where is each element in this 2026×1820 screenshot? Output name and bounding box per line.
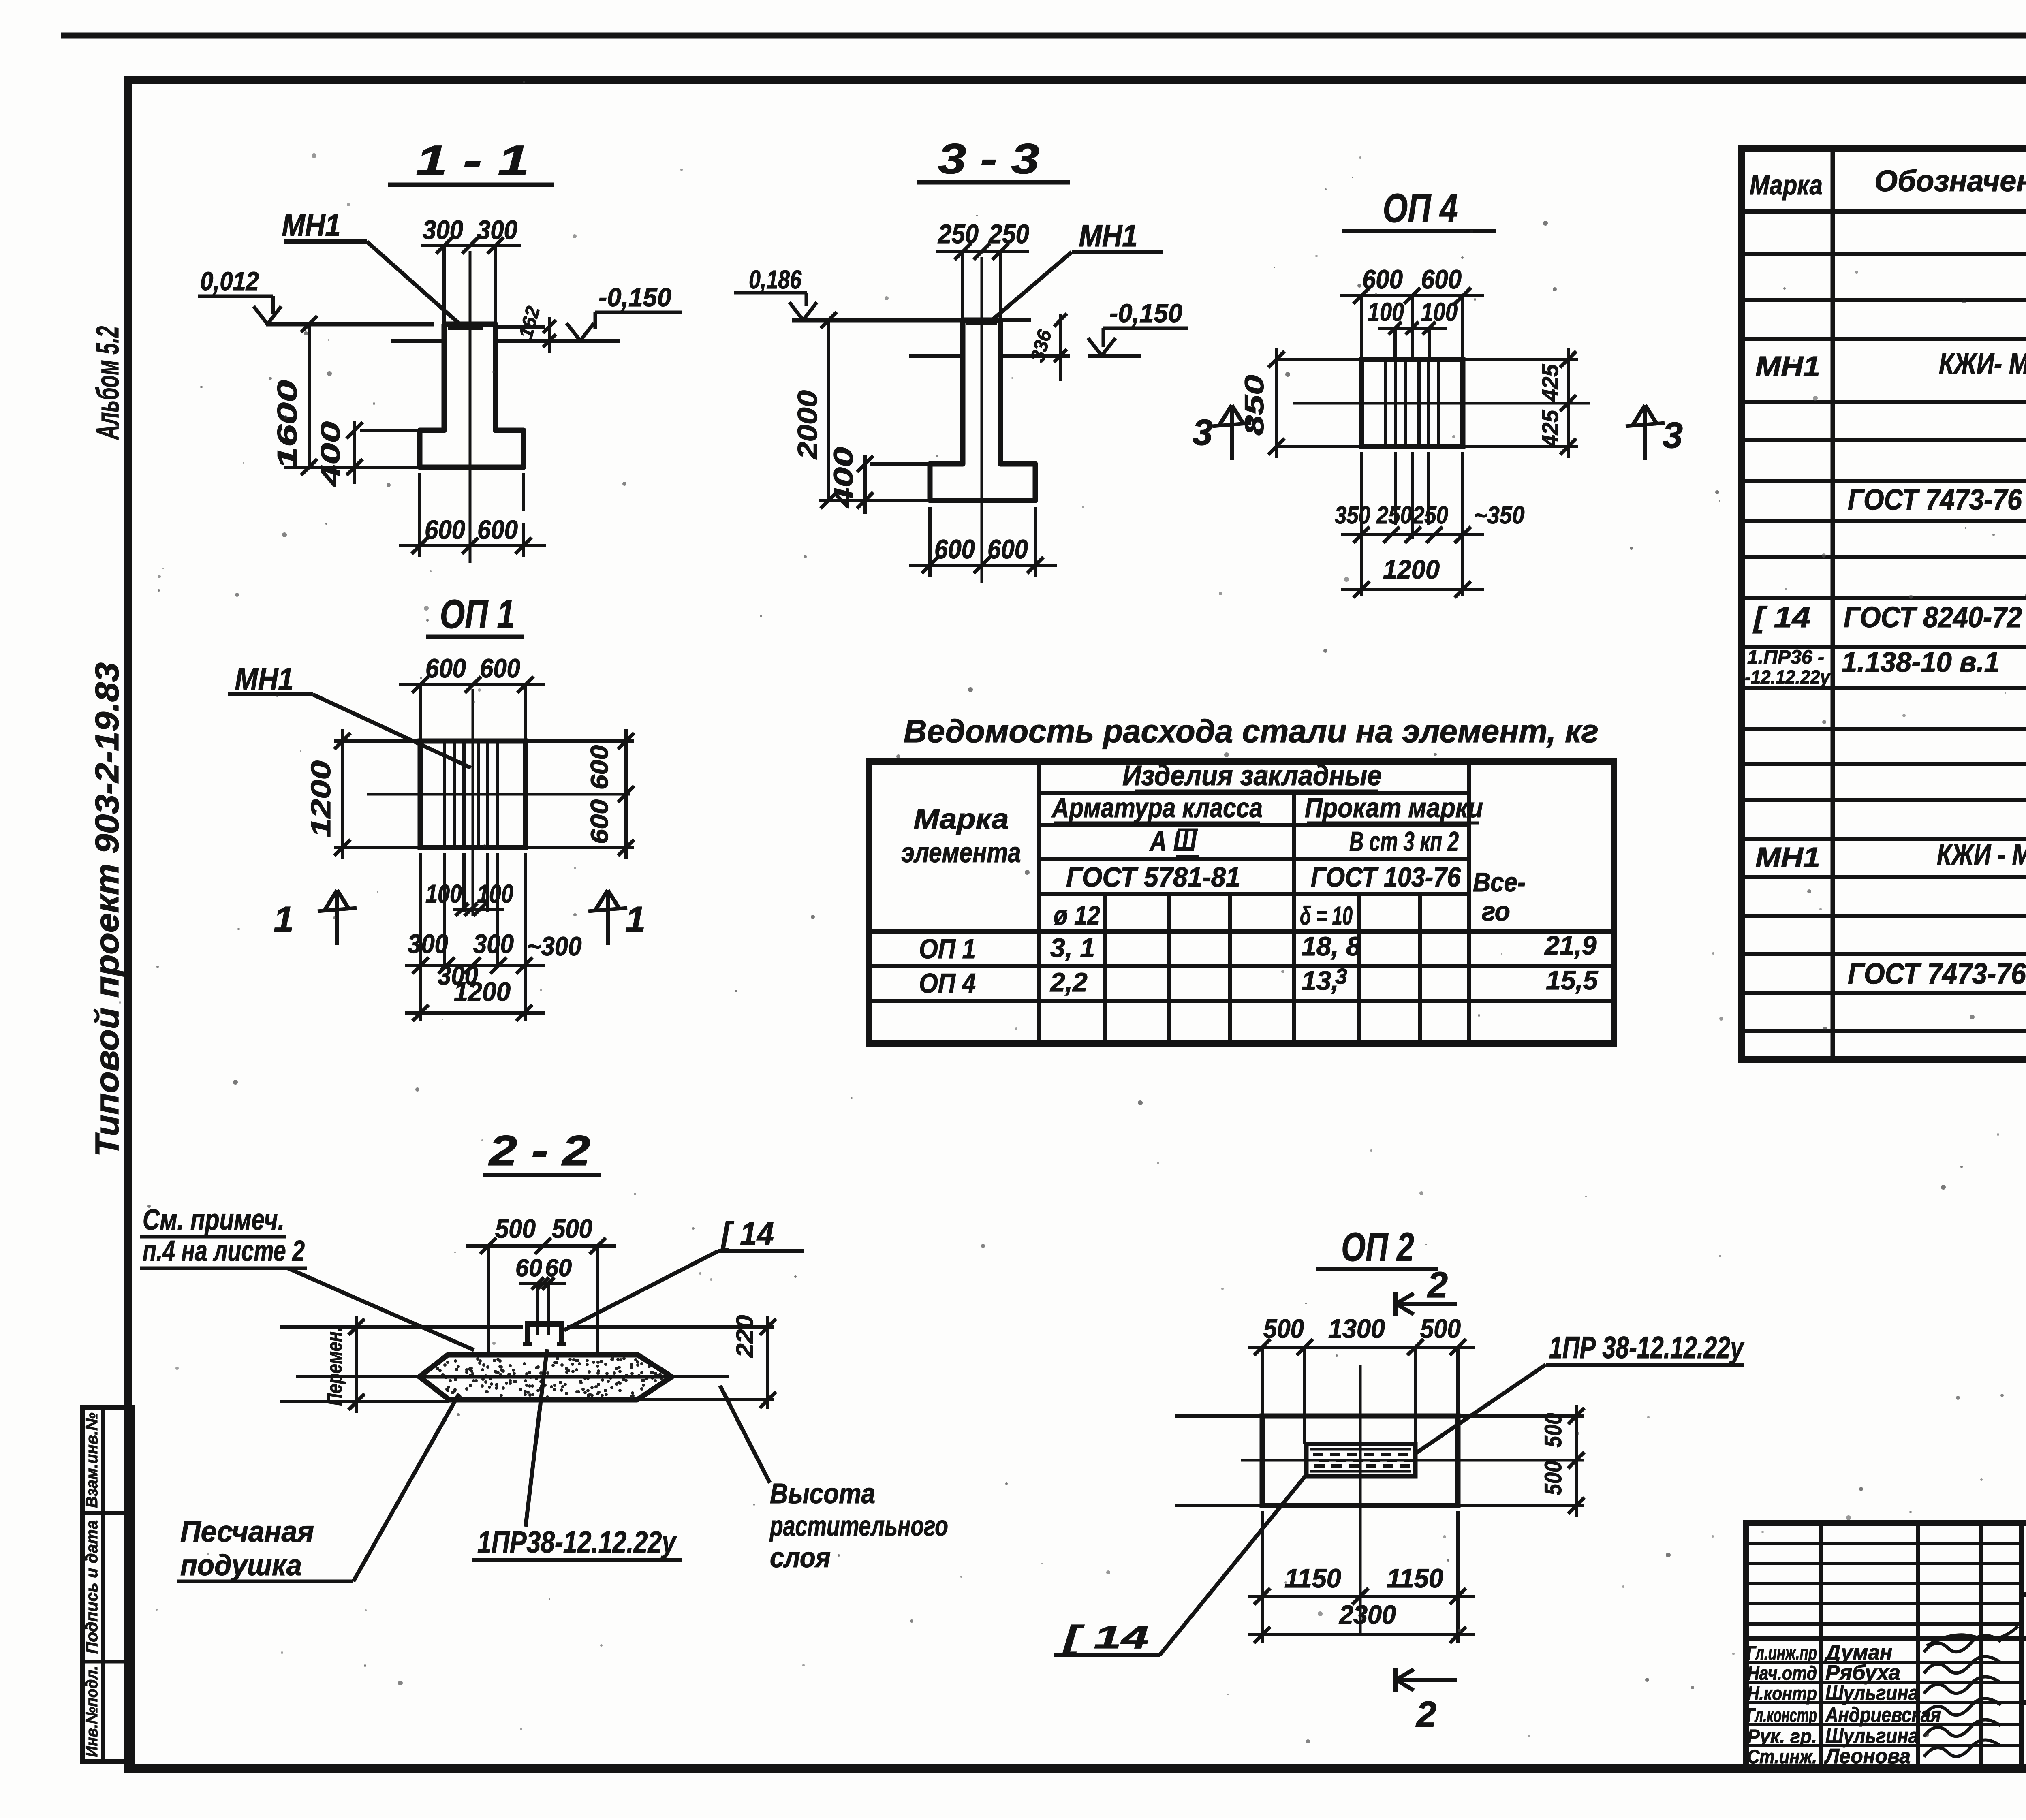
svg-text:1ПР38-12.12.22у: 1ПР38-12.12.22у [477,1525,677,1559]
svg-text:1: 1 [625,899,645,940]
svg-text:ГОСТ 8240-72: ГОСТ 8240-72 [1844,601,2022,634]
bottom dimension 1200 (ОП 4) [1341,588,1484,591]
svg-text:1ПР 38-12.12.22у: 1ПР 38-12.12.22у [1549,1331,1745,1365]
centerline (section 1-1) [469,251,472,563]
dimension 1600 (section 1-1) [308,324,311,467]
bottom extension lines (ОП 2) [1261,1511,1264,1643]
svg-text:[ 14: [ 14 [1062,1619,1149,1655]
svg-text:ГОСТ 7473-76: ГОСТ 7473-76 [1848,484,2022,516]
svg-text:250: 250 [1412,502,1448,529]
section arrow 3 right (ОП 4) [1643,405,1647,460]
svg-text:600: 600 [477,515,518,545]
sheet top border line [61,33,2026,39]
dimension 220 right (2-2) [766,1316,769,1409]
svg-text:100: 100 [1368,297,1404,327]
svg-text:п.4 на листе 2: п.4 на листе 2 [143,1235,305,1267]
svg-text:Все-: Все- [1473,867,1526,897]
side extension lines (ОП 2) [1175,1414,1262,1418]
dimension 2000 (section 3-3) [827,320,830,500]
svg-text:2: 2 [1415,1694,1436,1735]
svg-text:1150: 1150 [1387,1563,1443,1593]
top dimension 600 600 (ОП 4) [1340,294,1484,297]
steel table inner lines [1037,761,1041,1043]
svg-text:600: 600 [480,653,520,683]
dimension 425 425 (ОП 4) [1567,348,1570,458]
svg-text:[ 14: [ 14 [1753,601,1810,634]
dimension 400 (section 3-3) [863,455,867,514]
vertical centerline (ОП 2) [1359,1365,1362,1635]
svg-text:250: 250 [1376,502,1412,529]
section marker 2 bottom (ОП 2) [1393,1668,1398,1692]
svg-text:ОП 4: ОП 4 [1383,186,1458,231]
svg-text:МН1: МН1 [282,208,341,243]
svg-text:Взам.инв.№: Взам.инв.№ [83,1412,101,1508]
svg-text:Перемен.: Перемен. [323,1327,346,1406]
svg-text:350: 350 [1335,502,1370,529]
svg-text:1: 1 [274,899,294,940]
svg-text:500: 500 [1540,1413,1567,1448]
svg-text:250: 250 [988,219,1029,249]
svg-text:3 - 3: 3 - 3 [938,135,1039,183]
svg-text:Марка: Марка [1750,170,1823,201]
svg-text:1 - 1: 1 - 1 [416,137,529,184]
svg-text:300: 300 [423,215,463,245]
mound bottom extension lines (2-2) [280,1400,449,1403]
svg-text:Обозначение: Обозначение [1874,164,2026,198]
bottom dimension 600 600 (section 1-1) [418,473,421,557]
svg-text:-0,150: -0,150 [598,283,671,312]
svg-text:1200: 1200 [1383,554,1440,584]
svg-text:Изделия закладные: Изделия закладные [1122,760,1382,791]
ground line lower (section 3-3) [909,354,963,358]
title block horizontal lines [2021,1592,2026,1597]
svg-text:1200: 1200 [306,760,336,837]
svg-text:600: 600 [1362,264,1403,294]
dimension 162 (section 1-1) [548,317,551,353]
column and footing outline (section 3-3) [930,320,1035,500]
svg-text:Арматура класса: Арматура класса [1051,793,1263,823]
anchor bolt lines (2-2) [536,1284,539,1335]
svg-text:500: 500 [552,1213,592,1243]
svg-text:1200: 1200 [454,976,511,1006]
svg-text:3: 3 [1663,415,1683,456]
embedded plate МН1 (section 1-1) [448,322,483,330]
svg-text:ГОСТ 5781-81: ГОСТ 5781-81 [1066,862,1240,893]
dimension 500 500 (2-2) [466,1244,616,1248]
svg-text:850: 850 [1239,375,1269,436]
svg-text:ГОСТ 7473-76: ГОСТ 7473-76 [1848,958,2026,990]
specification table column lines [1831,149,1835,1060]
svg-text:Нач.отд: Нач.отд [1747,1663,1817,1684]
svg-text:2300: 2300 [1338,1600,1396,1630]
svg-text:ОП 1: ОП 1 [919,933,976,964]
svg-text:КЖИ - МН1: КЖИ - МН1 [1937,839,2026,871]
svg-text:600: 600 [586,799,613,844]
footing outline plan (ОП 4) [1361,359,1463,446]
section arrow 3 left (ОП 4) [1230,405,1234,460]
svg-text:1.ПР36 -: 1.ПР36 - [1747,647,1824,668]
title block vertical lines [1819,1523,1823,1769]
svg-text:18, 8: 18, 8 [1302,931,1361,961]
signatures [1924,1635,2001,1652]
svg-text:0,186: 0,186 [749,265,801,294]
svg-text:220: 220 [732,1315,758,1358]
svg-text:ОП 1: ОП 1 [440,592,515,637]
svg-text:13,: 13, [1302,966,1339,995]
svg-text:Альбом 5.2: Альбом 5.2 [90,326,125,440]
specification table frame [1742,149,2026,1060]
column and footing outline (section 1-1) [420,324,524,467]
svg-text:Инв.№подл.: Инв.№подл. [83,1666,101,1757]
dimension 100 100 (ОП 4) [1378,327,1447,330]
svg-text:425: 425 [1537,364,1563,402]
svg-text:Ст.инж.: Ст.инж. [1747,1746,1817,1768]
svg-text:КЖИ- МН1: КЖИ- МН1 [1939,348,2026,380]
svg-text:Высота: Высота [770,1478,875,1509]
extension of footing top to left [360,429,444,432]
horizontal centerline (ОП 2) [1241,1459,1584,1462]
svg-text:1.138-10 в.1: 1.138-10 в.1 [1842,646,2000,678]
ground line upper (section 1-1) [266,322,434,327]
svg-text:Шульгина: Шульгина [1825,1681,1919,1705]
bottom dimensions 350 250 250 350 (ОП 4) [1360,452,1363,596]
svg-text:ОП 2: ОП 2 [1341,1224,1414,1270]
lintel in plan with dashes (ОП 2) [1306,1444,1415,1476]
bottom extension lines (ОП 1) [419,853,422,1021]
svg-text:~350: ~350 [1474,502,1525,529]
vertical centerline (ОП 1) [472,689,474,916]
footing outline plan (ОП 2) [1262,1416,1458,1506]
top dimension 250 250 (section 3-3) [936,250,1029,253]
mid ground line through mound (2-2) [296,1375,419,1378]
svg-text:ø 12: ø 12 [1054,900,1100,930]
level line at channel base (2-2) [280,1325,523,1329]
extension footing top-left (section 3-3) [870,462,930,466]
svg-text:3: 3 [1335,964,1347,989]
extension footing bottom-left (section 3-3) [819,499,930,502]
svg-text:500: 500 [495,1213,536,1243]
dimension 600 600 right (ОП 1) [624,729,628,859]
svg-text:2: 2 [1427,1265,1448,1305]
svg-text:Леонова: Леонова [1824,1745,1911,1768]
dimension 500 500 right (ОП 2) [1575,1405,1578,1517]
svg-text:слоя: слоя [770,1542,831,1573]
dimension 100 100 (ОП 1) [453,908,504,911]
dimension 300 300 300 (ОП 1) [405,964,545,967]
horizontal centerline (ОП 4) [1293,402,1590,405]
svg-text:500: 500 [1420,1314,1461,1344]
svg-text:400: 400 [315,421,345,487]
svg-text:425: 425 [1537,410,1563,448]
ground line lower (section 1-1) [391,339,444,343]
bottom dimension 600 600 (section 3-3) [928,507,932,577]
svg-text:-0,150: -0,150 [1109,299,1182,328]
extension lines (ОП 1) [334,739,420,743]
dimension 2300 (ОП 2) [1248,1633,1475,1636]
svg-text:600: 600 [934,534,975,564]
svg-text:1150: 1150 [1284,1563,1341,1593]
dimension 1200 bottom (ОП 1) [405,1011,545,1015]
svg-text:ОП 4: ОП 4 [919,968,976,999]
svg-text:Прокат марки: Прокат марки [1305,793,1483,823]
svg-text:15,5: 15,5 [1546,965,1599,995]
svg-text:Типовой проект 903-2-19.83: Типовой проект 903-2-19.83 [89,662,126,1157]
top dimension 300 300 (section 1-1) [421,244,521,247]
svg-text:500: 500 [1540,1461,1567,1495]
svg-text:Гл.констр: Гл.констр [1747,1705,1817,1726]
dimension 336 (section 3-3) [1059,314,1062,381]
svg-text:600: 600 [1421,264,1462,294]
svg-text:2,2: 2,2 [1049,967,1088,997]
ground line upper (section 3-3) [792,318,963,323]
svg-text:МН1: МН1 [1755,350,1820,382]
svg-text:МН1: МН1 [235,662,294,696]
svg-text:-12.12.22у: -12.12.22у [1745,667,1831,688]
svg-text:2000: 2000 [792,390,823,460]
horizontal centerline (ОП 1) [367,793,630,796]
left stamp boxes [82,1408,133,1762]
dimension 400 (section 1-1) [353,421,356,484]
svg-text:1600: 1600 [272,380,303,469]
section arrow 1 right (ОП 1) [606,890,610,945]
svg-text:Песчаная: Песчаная [180,1516,314,1548]
svg-text:0,012: 0,012 [200,267,259,296]
dimension 850 (ОП 4) [1275,348,1278,458]
sand cushion mound (2-2) [419,1355,672,1400]
svg-text:600: 600 [987,534,1028,564]
section marker 2 top (ОП 2) [1393,1292,1398,1316]
svg-text:600: 600 [586,745,613,790]
svg-text:60: 60 [545,1254,572,1282]
svg-text:МН1: МН1 [1079,219,1138,253]
steel table frame [869,761,1614,1043]
centerline (section 3-3) [981,257,983,583]
svg-text:элемента: элемента [902,837,1021,868]
embedded plate lines in plan (ОП 1) [443,741,446,848]
dimension 1150 1150 (ОП 2) [1248,1595,1475,1598]
svg-text:ГОСТ 103-76: ГОСТ 103-76 [1311,862,1461,893]
embedded plate МН1 (section 3-3) [966,318,997,325]
svg-text:МН1: МН1 [1755,842,1820,873]
extension lines left/right (ОП 4) [1276,358,1361,361]
svg-text:21,9: 21,9 [1544,930,1597,960]
svg-text:Н.контр: Н.контр [1747,1683,1817,1705]
svg-text:го: го [1482,896,1510,926]
svg-text:300: 300 [477,215,517,245]
dimension Перемен. left (2-2) [355,1316,358,1413]
svg-text:300: 300 [408,929,448,959]
svg-text:60: 60 [515,1254,542,1282]
extension of footing bottom to left [284,466,420,469]
svg-text:600: 600 [425,653,466,683]
svg-text:Гл.инж.пр: Гл.инж.пр [1747,1643,1817,1664]
svg-text:100: 100 [1421,297,1458,327]
svg-text:Рук. гр.: Рук. гр. [1747,1726,1817,1747]
svg-text:Подпись и дата: Подпись и дата [83,1520,101,1654]
svg-text:растительного: растительного [769,1510,948,1542]
svg-text:3, 1: 3, 1 [1050,933,1095,963]
svg-text:δ = 10: δ = 10 [1300,901,1353,930]
embedded channel lines in plan (ОП 4) [1384,359,1387,446]
top dimension 600 600 (ОП 1) [399,683,545,686]
svg-text:1300: 1300 [1328,1314,1385,1344]
dimension 60 60 (2-2) [519,1282,566,1285]
short upper ground right of column [498,325,545,329]
dimension 1200 left (ОП 1) [341,729,344,859]
specification table row lines [1742,209,2026,214]
svg-text:Марка: Марка [914,803,1009,835]
svg-text:300: 300 [473,929,514,959]
svg-text:3: 3 [1193,412,1213,453]
title block main frame [1746,1523,2026,1769]
svg-text:600: 600 [425,515,465,545]
top dimension 500 1300 500 (ОП 2) [1248,1346,1475,1349]
svg-text:[ 14: [ 14 [720,1215,774,1252]
svg-text:~300: ~300 [527,931,582,961]
svg-text:100: 100 [425,879,462,908]
svg-text:500: 500 [1263,1314,1304,1344]
svg-text:См. примеч.: См. примеч. [143,1204,284,1236]
section arrow 1 left (ОП 1) [335,890,339,945]
svg-text:2 - 2: 2 - 2 [488,1127,590,1175]
svg-text:В ст 3 кп 2: В ст 3 кп 2 [1349,826,1459,857]
svg-text:подушка: подушка [180,1549,302,1582]
svg-text:250: 250 [937,219,979,249]
svg-text:Ведомость расхода стали: Ведомость расхода стали на элемент, кг [904,713,1599,749]
footing outline plan (ОП 1) [420,741,526,848]
channel С14 piece (2-2) [525,1321,564,1327]
svg-text:100: 100 [477,879,513,908]
